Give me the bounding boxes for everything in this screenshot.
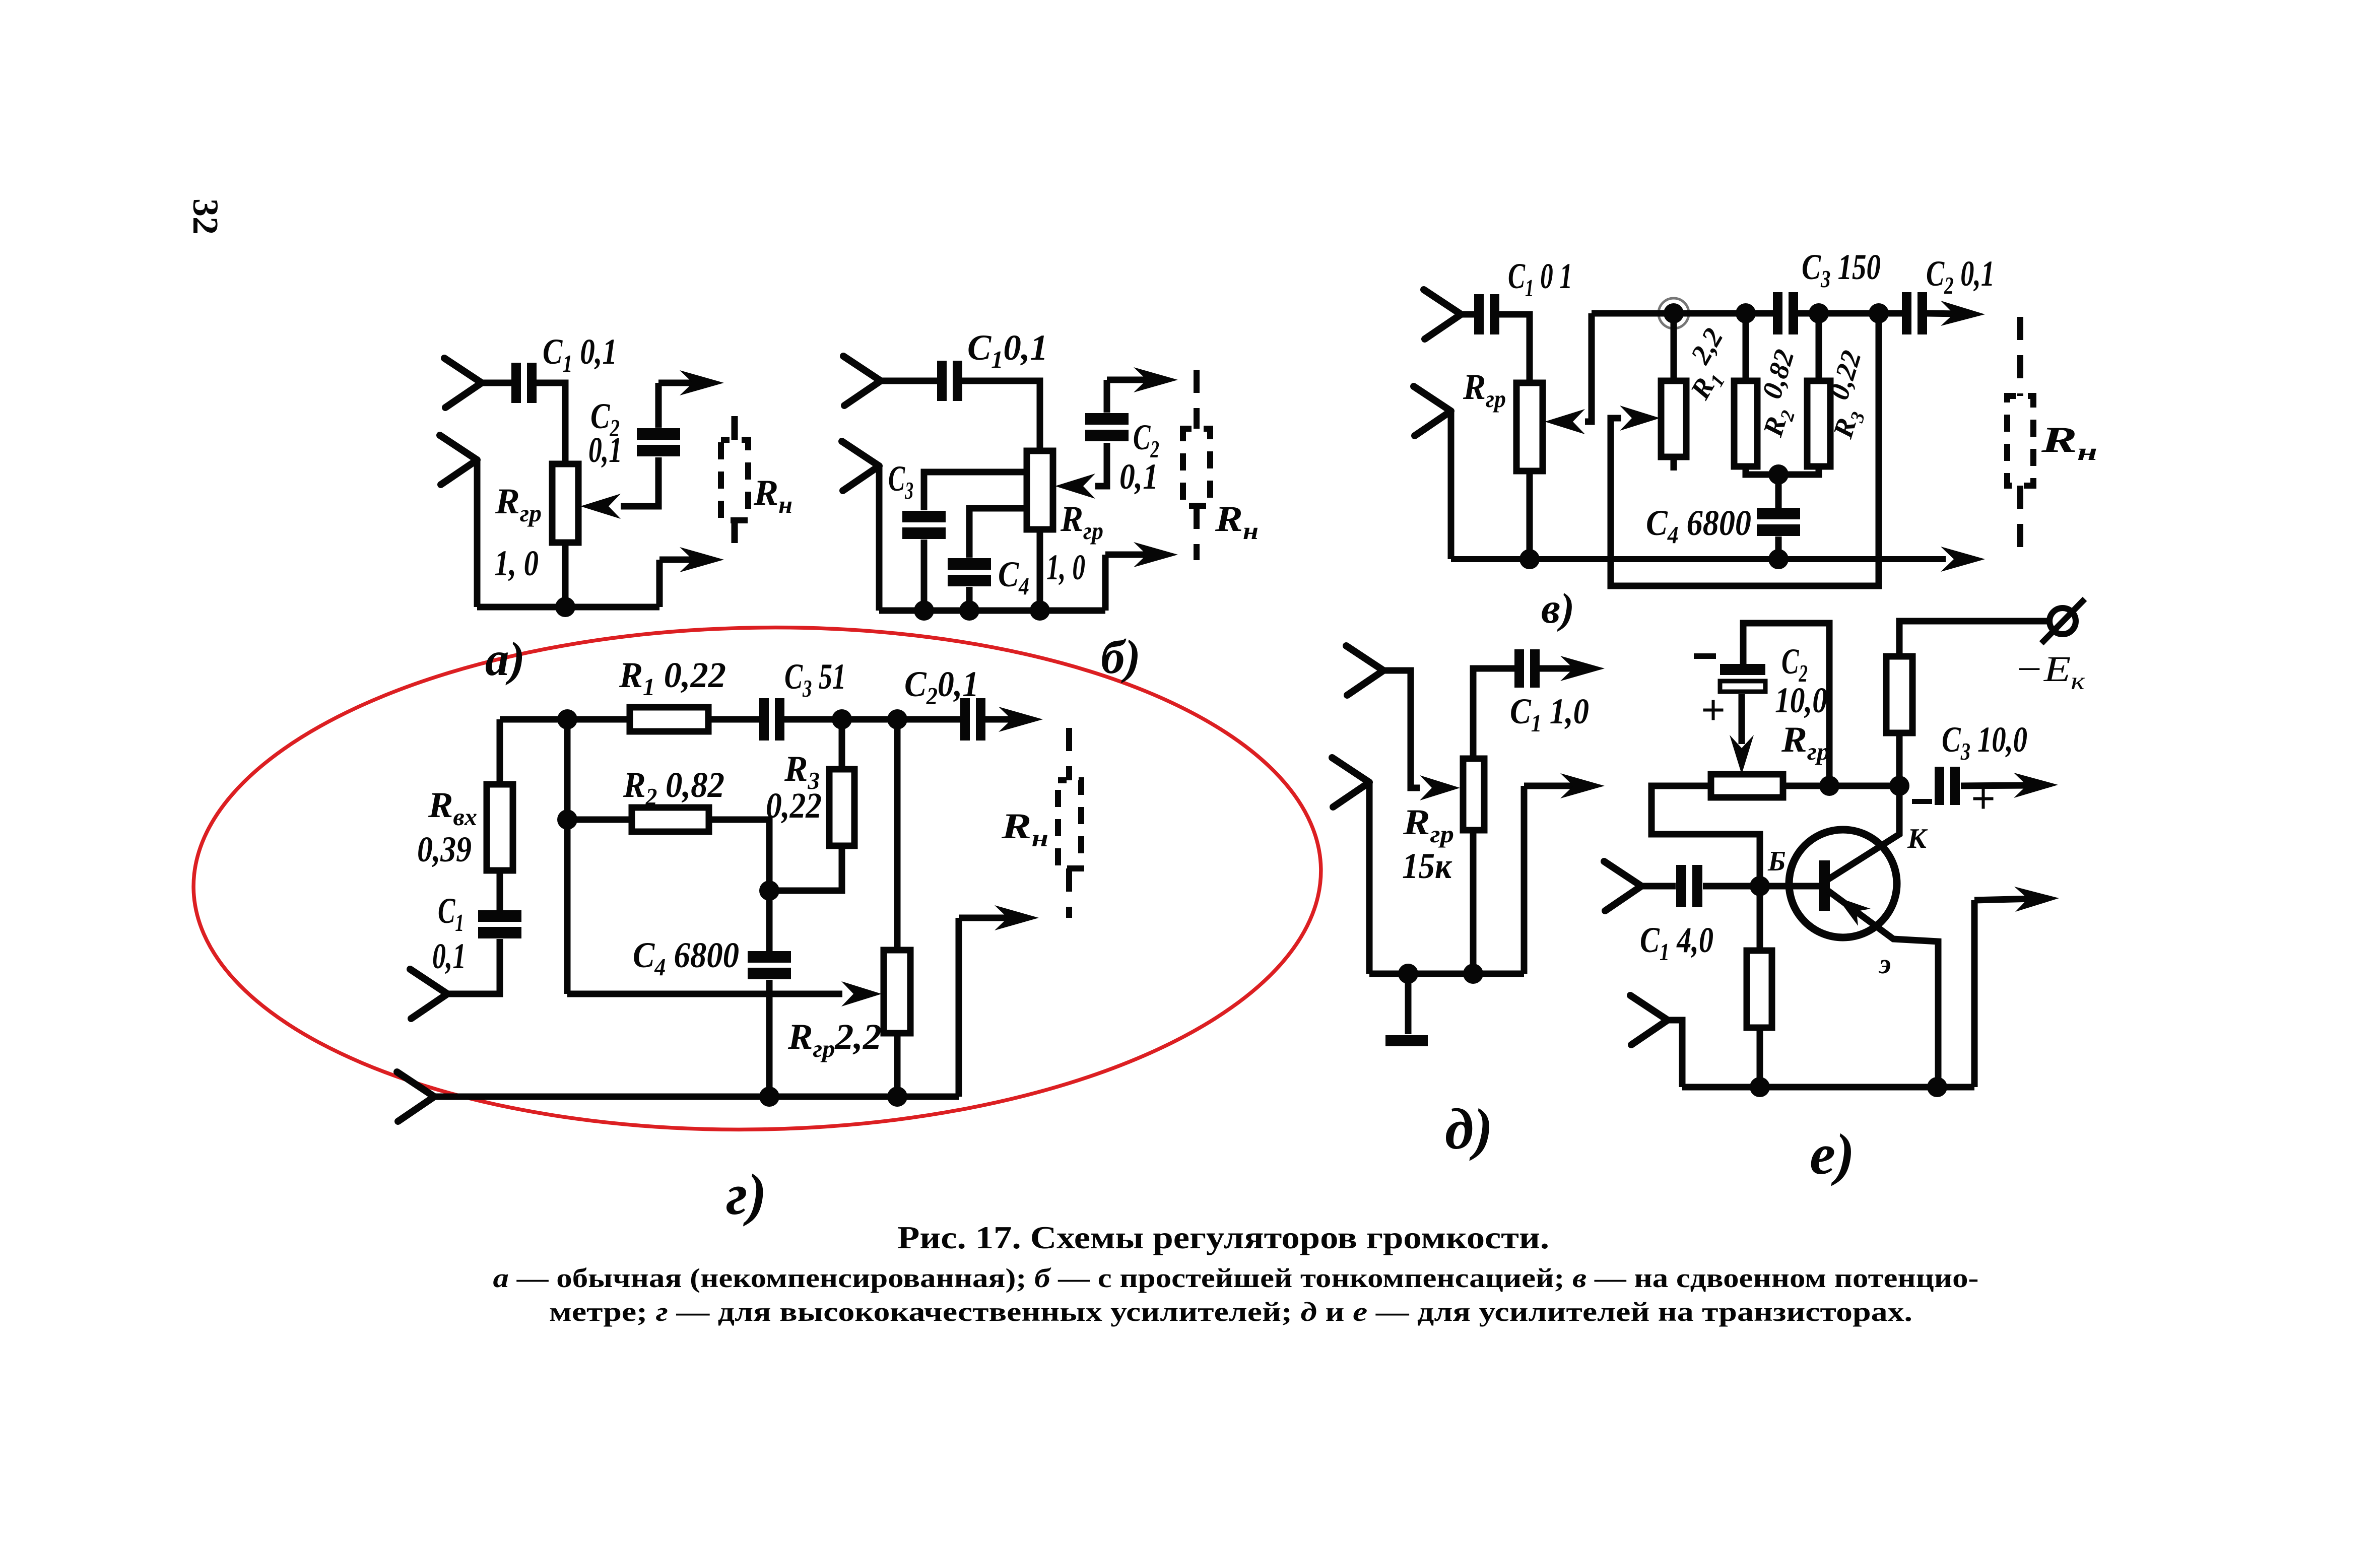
junction pot-rail (г) <box>887 1087 907 1107</box>
svg-text:С1 0,1: С1 0,1 <box>543 331 617 377</box>
wire input to C1 (в) <box>1461 311 1475 318</box>
wire R2 to R3 bottom (г) <box>709 820 769 891</box>
svg-text:0,1: 0,1 <box>432 936 466 976</box>
svg-text:метре; г — для высококачествен: метре; г — для высококачественных усилит… <box>549 1297 1912 1327</box>
capacitor C2 (а) <box>637 428 680 456</box>
wire C1 to input (г) <box>448 939 500 994</box>
svg-text:1, 0: 1, 0 <box>1046 547 1085 587</box>
junction emitter-rail (е) <box>1927 1077 1947 1097</box>
svg-text:а — обычная (некомпенсированна: а — обычная (некомпенсированная); б — с … <box>493 1263 1978 1293</box>
resistor R2 (г) <box>632 808 709 832</box>
wire left side down (б) <box>876 466 883 611</box>
svg-text:б): б) <box>1101 630 1141 684</box>
output arrow (в) <box>1927 301 1985 326</box>
C4 bottom lead (в) <box>1775 536 1782 559</box>
junction R1 top (в) <box>1664 303 1684 323</box>
ground symbol (д) <box>1385 1035 1428 1046</box>
wire junction to C4 (в) <box>1775 475 1782 508</box>
Rн top lead (а) <box>732 416 738 440</box>
halo artifact around junction (в) <box>1659 298 1689 328</box>
svg-text:32: 32 <box>185 198 226 235</box>
bottom rail with arrow (в) <box>1451 547 1985 572</box>
potentiometer Rгр (а) <box>552 464 578 543</box>
wire C1 to pot top (б) <box>962 381 1040 451</box>
resistor R3 (в) <box>1807 381 1830 466</box>
svg-text:Рис. 17. Схемы регуляторов гро: Рис. 17. Схемы регуляторов громкости. <box>897 1220 1549 1255</box>
bottom rail (г) <box>434 1094 959 1100</box>
Rн bottom lead dashed (г) <box>1066 868 1072 918</box>
wire rail to output 2 (б) <box>1102 555 1109 611</box>
input terminal 1 (б) <box>843 356 881 406</box>
junction base (е) <box>1750 876 1770 896</box>
wire C1 to pot top (а) <box>536 383 565 464</box>
input terminal 2 (е) <box>1630 995 1668 1045</box>
wire wiper to C2 (а) <box>621 457 658 506</box>
svg-text:Rгр2,2: Rгр2,2 <box>787 1017 882 1062</box>
junction R3 top (в) <box>1809 303 1829 323</box>
bias resistor bottom lead (е) <box>1757 1028 1763 1087</box>
junction bias-rail (е) <box>1750 1077 1770 1097</box>
left branch down (г) <box>497 719 503 784</box>
junction pot-rail (б) <box>1030 600 1050 621</box>
junction C4-rail (б) <box>959 600 979 621</box>
ground stem (д) <box>1405 974 1412 1034</box>
input terminal 1 (д) <box>1346 646 1383 695</box>
svg-text:С4 6800: С4 6800 <box>633 935 739 981</box>
svg-text:С3 51: С3 51 <box>784 656 846 702</box>
svg-text:1, 0: 1, 0 <box>494 543 539 583</box>
output arrow top (д) <box>1539 656 1605 681</box>
svg-text:в): в) <box>1541 585 1574 632</box>
wire C2 to output (а) <box>655 383 662 428</box>
capacitor C2 (г) <box>960 698 985 741</box>
load resistor Rн (г) <box>1058 780 1081 868</box>
wiper arrowhead of Rгр (д) <box>1420 775 1460 800</box>
svg-text:С2 0,1: С2 0,1 <box>1926 253 1995 299</box>
input terminal 1 (а) <box>444 358 482 408</box>
wire C1 to base (е) <box>1703 883 1819 890</box>
resistor R3 (г) <box>829 769 854 846</box>
wiper line (г) <box>567 991 842 997</box>
resistor R1 (г) <box>630 707 708 731</box>
svg-text:+: + <box>1971 774 1996 823</box>
bottom rail (а) <box>477 604 659 611</box>
pot bottom lead (д) <box>1470 830 1477 974</box>
base bias resistor (е) <box>1747 951 1772 1028</box>
capacitor C3 (е) <box>1935 767 1960 805</box>
wire junction to C4 (г) <box>766 891 773 951</box>
capacitor C1 (г) <box>478 910 521 938</box>
output arrow top (г) <box>985 707 1043 732</box>
svg-text:С4 6800: С4 6800 <box>1646 503 1751 549</box>
wire input 1 down (д) <box>1383 670 1420 788</box>
pot bottom lead (в) <box>1527 471 1533 559</box>
potentiometer Rгр (е) <box>1711 774 1783 797</box>
wire wiper to C2 (б) <box>1095 443 1107 486</box>
wire input to C1 (б) <box>881 378 938 384</box>
pot top lead to C1 (д) <box>1473 668 1515 759</box>
minus sign of C2 (е) <box>1694 653 1716 659</box>
pot bottom lead (а) <box>562 543 569 607</box>
capacitor C2 (в) <box>1902 292 1927 334</box>
svg-text:+: + <box>1701 686 1726 734</box>
junction R3-C4 (г) <box>759 881 779 901</box>
loop wire R1 wiper (в) <box>1611 313 1879 586</box>
capacitor C3 (в) <box>1773 292 1798 334</box>
collector resistor bottom lead (е) <box>1896 733 1903 786</box>
load resistor Rн (а) <box>721 440 748 520</box>
svg-text:0,39: 0,39 <box>417 829 472 869</box>
top rail right (в) <box>1798 310 1902 317</box>
minus sign near C3 (е) <box>1912 799 1932 804</box>
capacitor C4 (г) <box>748 951 791 979</box>
capacitor C1 (а) <box>511 363 537 403</box>
input terminal 2 (г) <box>397 1072 434 1121</box>
svg-text:а): а) <box>485 632 525 686</box>
tap wire to C3 (б) <box>924 472 1027 510</box>
junction top-left (г) <box>557 709 577 729</box>
pot section R1 (в) <box>1661 381 1686 457</box>
wiper arrowhead of Rгр (б) <box>1055 474 1095 499</box>
wire input to C1 (а) <box>482 380 512 386</box>
junction C4-rail (г) <box>759 1087 779 1107</box>
collector lead diagonal (е) <box>1828 786 1899 880</box>
load resistor Rн (в) <box>2007 396 2033 486</box>
R1 bottom stub (в) <box>1671 457 1677 470</box>
wire Rвх to C1 (г) <box>497 870 503 910</box>
wiper arrowhead of Rгр (г) <box>841 981 882 1006</box>
svg-text:10,0: 10,0 <box>1775 680 1827 720</box>
wiper arrowhead of Rгр (в) <box>1545 409 1585 434</box>
capacitor C4 (в) <box>1757 508 1800 536</box>
wire C2 up to output (б) <box>1104 380 1110 413</box>
wire left side down (в) <box>1448 411 1455 559</box>
supply terminal -Ек (е) <box>2041 599 2085 643</box>
emitter arrowhead pnp (е) <box>1837 897 1871 926</box>
capacitor C1 (е) <box>1676 865 1702 907</box>
wire C1 to pot top (в) <box>1499 314 1530 383</box>
junction loop top (в) <box>1869 303 1889 323</box>
junction R2 top (в) <box>1736 303 1756 323</box>
svg-text:д): д) <box>1445 1097 1493 1161</box>
potentiometer Rгр (г) <box>884 950 910 1033</box>
junction R2 left (г) <box>557 810 577 830</box>
svg-text:R1 0,22: R1 0,22 <box>619 655 726 701</box>
feedback wire pot-left to base (е) <box>1651 786 1760 886</box>
tap wire to C4 (б) <box>969 508 1027 558</box>
input terminal 1 (г) <box>410 969 447 1019</box>
junction C3-right (г) <box>832 709 852 729</box>
wire rail to output (д) <box>1521 786 1528 974</box>
pot bottom lead (б) <box>1037 529 1043 611</box>
R3 top lead (г) <box>839 719 845 769</box>
input terminal 2 (в) <box>1414 386 1451 436</box>
transistor circle (е) <box>1789 830 1897 937</box>
bottom rail (д) <box>1369 971 1524 977</box>
C4 bottom lead (б) <box>966 587 973 611</box>
output arrow bottom (б) <box>1105 542 1178 567</box>
wiper arrowhead of R1 (в) <box>1620 406 1660 431</box>
Rн top lead dashed (б) <box>1194 370 1200 429</box>
R1 top lead (в) <box>1671 313 1677 381</box>
Rн top lead dashed (г) <box>1066 728 1072 780</box>
R2 bottom lead (в) <box>1746 466 1771 475</box>
wire left side down (а) <box>474 460 481 607</box>
wire rail to output 2 (а) <box>656 560 663 607</box>
svg-text:С1 1,0: С1 1,0 <box>1510 691 1589 737</box>
junction collector (е) <box>1889 776 1909 796</box>
svg-text:0,1: 0,1 <box>1119 456 1158 497</box>
top rail segment 3 (г) <box>784 716 961 723</box>
svg-text:С20,1: С20,1 <box>904 664 979 710</box>
Rн bottom lead (а) <box>732 520 738 543</box>
Rн bottom lead dashed (б) <box>1194 506 1200 560</box>
collector resistor (е) <box>1886 656 1912 733</box>
junction (а) <box>555 597 575 617</box>
output arrow bottom (е) <box>1974 887 2059 912</box>
junction C2-left (г) <box>887 709 907 729</box>
C2 top loop wire (е) <box>1743 623 1829 786</box>
capacitor C1 (в) <box>1474 294 1499 334</box>
svg-text:К: К <box>1907 823 1928 854</box>
junction pot-rail (д) <box>1463 964 1483 984</box>
output arrow bottom (а) <box>659 547 724 572</box>
bottom rail (б) <box>879 608 1105 614</box>
svg-text:э: э <box>1878 949 1891 980</box>
svg-text:R2 0,82: R2 0,82 <box>623 765 724 811</box>
svg-text:0,22: 0,22 <box>766 785 822 826</box>
wire left side down (д) <box>1366 782 1373 974</box>
capacitor C1 (д) <box>1514 649 1540 688</box>
output arrow right (г) <box>959 905 1039 930</box>
junction pot-rail (в) <box>1519 549 1540 569</box>
input terminal 2 (а) <box>440 435 477 485</box>
svg-text:С3 10,0: С3 10,0 <box>1942 719 2027 765</box>
svg-text:С1 0 1: С1 0 1 <box>1508 256 1572 302</box>
load resistor Rн (б) <box>1183 429 1210 506</box>
input terminal 1 (е) <box>1604 861 1641 911</box>
resistor Rвх (г) <box>487 784 513 870</box>
wiper arrowhead of Rгр (а) <box>580 494 621 519</box>
potentiometer Rгр (в) <box>1516 383 1543 471</box>
junction C2-loop (е) <box>1819 776 1839 796</box>
junction ground (д) <box>1398 964 1418 984</box>
Rн bottom lead dashed (в) <box>2017 486 2023 547</box>
junction C3-rail (б) <box>914 600 934 621</box>
vertical branch R2/wiper (г) <box>564 719 571 994</box>
potentiometer Rгр (б) <box>1027 451 1053 529</box>
svg-text:Б: Б <box>1767 846 1786 877</box>
pot top lead (г) <box>894 719 901 950</box>
C4 bottom lead (г) <box>766 980 773 1097</box>
emitter lead diagonal (е) <box>1828 891 1938 1087</box>
svg-text:С1 4,0: С1 4,0 <box>1640 920 1713 966</box>
potentiometer Rгр (д) <box>1463 759 1484 830</box>
R3 bottom lead (в) <box>1786 466 1819 475</box>
wire wiper up to rail (в) <box>1585 313 1592 422</box>
R3 top lead (в) <box>1816 313 1822 381</box>
resistor R2 (в) <box>1734 381 1757 466</box>
bias resistor top lead (е) <box>1757 886 1763 951</box>
input terminal 2 (д) <box>1332 758 1369 807</box>
svg-text:С10,1: С10,1 <box>967 327 1048 373</box>
collector resistor top lead (е) <box>1899 621 2050 656</box>
svg-text:е): е) <box>1810 1122 1855 1186</box>
capacitor C2 (б) <box>1085 413 1129 441</box>
input terminal 1 (в) <box>1424 290 1461 339</box>
capacitor C3 (г) <box>759 698 784 741</box>
pot right wire (е) <box>1783 783 1900 789</box>
wiper arrowhead down (е) <box>1730 735 1754 774</box>
wiper wire from C2 (е) <box>1739 694 1745 744</box>
wire input to C1 (е) <box>1641 883 1676 890</box>
C3 bottom lead (б) <box>921 540 928 611</box>
wire rail to output (е) <box>1971 900 1978 1087</box>
output arrow bottom (д) <box>1524 773 1605 798</box>
svg-text:г): г) <box>726 1163 767 1227</box>
transistor base bar (е) <box>1819 860 1830 911</box>
output arrow top (а) <box>658 370 724 395</box>
output arrow top (б) <box>1107 367 1178 392</box>
capacitor C3 (б) <box>902 511 946 539</box>
Rн top lead dashed (в) <box>2017 317 2023 396</box>
R3 bottom lead (г) <box>775 846 842 891</box>
red highlight ellipse around circuit г) <box>189 618 1325 1139</box>
wire rail to output (г) <box>956 918 962 1097</box>
wire to R2 (г) <box>567 817 632 823</box>
svg-text:С3 150: С3 150 <box>1802 247 1881 293</box>
svg-text:15к: 15к <box>1402 846 1452 886</box>
bottom rail (е) <box>1682 1084 1974 1091</box>
top rail left (в) <box>1592 310 1774 317</box>
capacitor C2 electrolytic (е) <box>1720 664 1765 692</box>
output arrow collector (е) <box>1961 773 2058 798</box>
svg-text:0,1: 0,1 <box>588 430 622 470</box>
capacitor C1 (б) <box>937 361 962 401</box>
top rail segment 2 (г) <box>708 716 760 723</box>
junction C4-rail (в) <box>1768 549 1789 569</box>
capacitor C4 (б) <box>948 558 991 586</box>
junction R2-R3 (в) <box>1768 464 1789 485</box>
top rail segment 1 (г) <box>500 716 630 723</box>
R2 top lead (в) <box>1743 313 1749 381</box>
pot bottom lead (г) <box>894 1033 901 1097</box>
wire input 2 down (е) <box>1668 1020 1682 1087</box>
input terminal 2 (б) <box>842 441 879 491</box>
